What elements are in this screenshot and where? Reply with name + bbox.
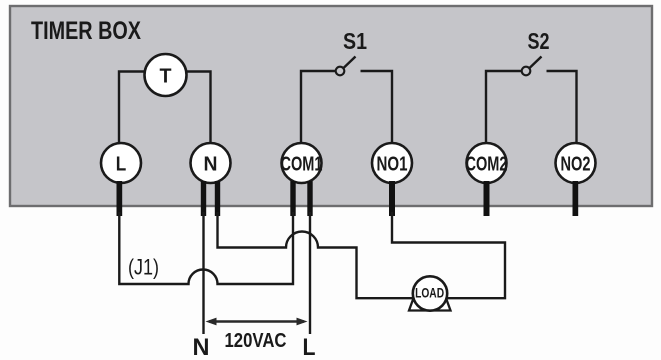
terminal NO1 [372, 143, 412, 183]
svg-text:S2: S2 [528, 28, 550, 54]
load stand [409, 294, 451, 311]
svg-text:N: N [204, 154, 218, 176]
svg-text:T: T [160, 66, 172, 88]
load symbol [413, 276, 447, 310]
wire jumper J1: L to COM1 with hop over N wire [119, 212, 293, 284]
wire COM1 right pin down to source L [309, 212, 311, 334]
terminal L [101, 143, 141, 183]
pin under N (right) [215, 181, 220, 216]
svg-text:TIMER BOX: TIMER BOX [31, 17, 141, 45]
svg-text:L: L [116, 154, 127, 176]
svg-text:COM1: COM1 [281, 154, 323, 176]
svg-text:S1: S1 [343, 28, 367, 54]
pin under NO2 [573, 181, 579, 216]
switch S2 pivot [522, 67, 531, 76]
pin under N (left) [201, 181, 206, 216]
switch S2 blade [530, 57, 542, 69]
terminal COM2 [467, 143, 507, 183]
wire S1 right down to NO1 [361, 71, 393, 143]
terminal COM1 [282, 143, 322, 183]
svg-text:LOAD: LOAD [415, 286, 444, 301]
dimension arrow 120VAC [209, 320, 304, 323]
svg-text:NO1: NO1 [377, 154, 408, 176]
svg-text:(J1): (J1) [128, 255, 159, 280]
pin under COM2 [484, 181, 490, 216]
wire COM2 up to S2 left [486, 71, 521, 143]
pin under COM1 (right) [307, 181, 312, 216]
wire S2 right down to NO2 [547, 71, 577, 143]
svg-text:N: N [193, 334, 210, 360]
pin under L [117, 181, 123, 216]
timer box enclosure [10, 6, 652, 206]
svg-text:120VAC: 120VAC [225, 330, 287, 352]
wire COM1 up to S1 left [301, 71, 335, 143]
terminal NO2 [556, 143, 596, 183]
svg-text:COM2: COM2 [466, 154, 508, 176]
switch S1 blade [344, 57, 356, 69]
switch S1 pivot [336, 67, 345, 76]
svg-text:L: L [303, 334, 316, 360]
pin under COM1 (left) [290, 181, 295, 216]
wire N right pin to LOAD with hop over COM1 wires [218, 212, 415, 298]
pin under NO1 [389, 181, 395, 216]
svg-text:NO2: NO2 [561, 154, 591, 176]
wire NO1 to LOAD right side [392, 212, 505, 298]
wire N down to source [202, 212, 204, 334]
timer motor T [145, 54, 187, 96]
terminal N [191, 143, 231, 183]
wire L to T to N [119, 72, 211, 144]
